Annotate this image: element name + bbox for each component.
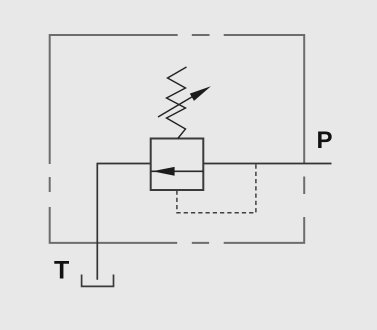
enclosure boundary, left dash bbox=[49, 177, 51, 192]
enclosure boundary, right dash bbox=[303, 177, 305, 195]
valve body V1 (relief valve envelope) bbox=[151, 139, 204, 191]
tank symbol (T port) bbox=[82, 275, 114, 287]
enclosure boundary, top dash bbox=[192, 34, 210, 36]
wire: P port line (left of valve) bbox=[97, 163, 150, 165]
pilot line (dashed, valve bottom to P line) bbox=[177, 164, 256, 212]
wire: T line (vertical drop to tank) bbox=[96, 163, 98, 280]
svg-text:P: P bbox=[317, 127, 333, 154]
enclosure boundary, bottom-right corner segment bbox=[224, 217, 305, 243]
enclosure boundary, bottom dash bbox=[192, 242, 209, 244]
wire: P port line (right of valve to P label) bbox=[203, 163, 331, 165]
adjustment arrow through spring bbox=[158, 95, 196, 118]
enclosure boundary, bottom-left corner segment bbox=[50, 207, 178, 243]
svg-text:T: T bbox=[54, 257, 69, 285]
spring (adjustable, zigzag above valve) bbox=[167, 67, 187, 139]
enclosure boundary (dash-dot frame), top-left corner segment bbox=[50, 35, 178, 164]
valve flow path arrow (inside body, pointing left) bbox=[151, 170, 204, 172]
enclosure boundary, top-right corner segment bbox=[224, 35, 305, 164]
